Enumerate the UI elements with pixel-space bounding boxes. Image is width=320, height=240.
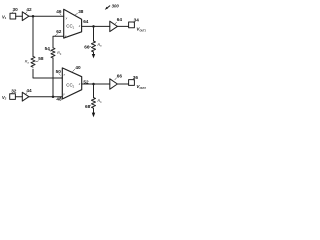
numeral 40 (CC2) <box>73 65 81 72</box>
svg-text:44: 44 <box>26 88 32 93</box>
buffer 64 <box>110 21 118 31</box>
svg-text:V2: V2 <box>2 95 7 101</box>
wire and supply arrow below resistor 66 <box>92 52 95 58</box>
numeral 32 <box>11 89 17 94</box>
svg-text:x: x <box>63 72 66 76</box>
buffer 66 <box>110 79 118 89</box>
resistor 58 Ra <box>31 56 35 67</box>
svg-text:66: 66 <box>117 73 123 78</box>
svg-text:50: 50 <box>56 69 62 74</box>
svg-text:CC1: CC1 <box>66 24 74 30</box>
svg-text:40: 40 <box>75 65 81 70</box>
svg-text:64: 64 <box>83 19 89 24</box>
svg-text:Rb: Rb <box>57 51 62 56</box>
svg-text:y: y <box>65 16 68 20</box>
svg-text:Rb: Rb <box>98 99 103 104</box>
wire buffer64 to terminal 34 <box>117 25 128 27</box>
svg-text:CC2: CC2 <box>66 83 74 89</box>
wire and supply arrow below resistor 68 <box>92 108 95 117</box>
node out1 junction <box>92 25 95 28</box>
node out2 junction <box>92 83 95 86</box>
current conveyor CC1 <box>64 9 82 38</box>
svg-text:Ra: Ra <box>25 60 30 65</box>
svg-text:68: 68 <box>85 104 91 109</box>
input terminal square 30 <box>10 13 16 19</box>
buffer 42 <box>22 12 29 21</box>
numeral 62 (CC1 x wire) <box>55 29 62 36</box>
svg-text:64: 64 <box>117 17 123 22</box>
wire terminal30 to buffer42 <box>16 15 23 17</box>
numeral 30 <box>12 7 19 13</box>
svg-text:38: 38 <box>78 9 84 14</box>
wire resistor58 to CC2 x input <box>33 69 62 78</box>
current conveyor CC2 <box>62 68 81 99</box>
wire node A down <box>32 16 34 56</box>
figure reference arrow 300 <box>105 6 110 10</box>
load resistor 68 <box>92 98 96 109</box>
wire down to load resistor 66 <box>93 26 95 41</box>
wire CC1 x input <box>53 36 64 48</box>
svg-text:54: 54 <box>45 46 51 51</box>
numeral 36 <box>133 75 139 80</box>
svg-text:30: 30 <box>13 7 19 12</box>
wire CC2 z output <box>82 83 110 85</box>
resistor 54 Rb <box>51 48 55 58</box>
numeral 44 <box>26 88 32 94</box>
numeral 58 <box>36 56 44 62</box>
svg-text:VOUT2: VOUT2 <box>136 84 146 90</box>
svg-text:42: 42 <box>26 7 32 12</box>
numeral 48 (CC2 y input) <box>56 97 62 102</box>
numeral 66 <box>84 44 91 49</box>
svg-text:z: z <box>78 24 81 28</box>
wire down to load resistor 68 <box>93 84 95 98</box>
svg-text:58: 58 <box>38 56 44 61</box>
svg-text:y: y <box>62 92 65 96</box>
svg-text:V1: V1 <box>2 14 7 20</box>
numeral 54 <box>45 46 51 51</box>
wire buffer44 output to CC2 y input <box>29 96 62 98</box>
output terminal square 34 <box>129 22 135 28</box>
numeral 64 (output buffer) <box>115 17 123 24</box>
svg-text:300: 300 <box>112 4 120 9</box>
numeral 66 (output buffer) <box>115 73 123 79</box>
svg-text:VOUT1: VOUT1 <box>136 27 146 33</box>
wire buffer42 output to CC1 y input <box>29 15 64 17</box>
svg-text:Ra: Ra <box>98 43 103 48</box>
wire terminal32 to buffer44 <box>15 96 22 98</box>
svg-text:62: 62 <box>56 29 62 34</box>
svg-text:46: 46 <box>56 9 62 14</box>
svg-text:66: 66 <box>84 44 90 49</box>
numeral 34 <box>134 17 140 22</box>
node B junction <box>52 95 55 98</box>
svg-text:48: 48 <box>56 97 62 102</box>
buffer 44 <box>22 92 29 101</box>
numeral 46 (CC1 y input) <box>56 9 62 15</box>
numeral 50 (CC2 x wire) <box>56 69 62 75</box>
wire CC1 z output <box>82 25 110 27</box>
svg-text:36: 36 <box>133 75 139 80</box>
svg-text:z: z <box>78 82 81 86</box>
output terminal square 36 <box>129 80 135 86</box>
load resistor 66 <box>92 41 96 52</box>
wire buffer66 to terminal 36 <box>117 83 128 85</box>
numeral 42 <box>26 7 32 13</box>
wire resistor54 down to node B <box>52 58 54 97</box>
numeral 68 <box>85 104 91 109</box>
node A junction <box>32 15 35 18</box>
numeral 38 (CC1) <box>75 9 84 15</box>
input terminal square 32 <box>10 94 16 100</box>
